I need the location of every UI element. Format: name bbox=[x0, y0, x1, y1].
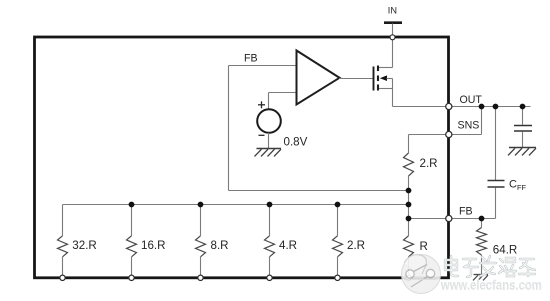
svg-text:16.R: 16.R bbox=[141, 239, 166, 252]
resistor 4.R bbox=[265, 205, 275, 278]
svg-text:OUT: OUT bbox=[460, 94, 483, 106]
svg-text:2.R: 2.R bbox=[420, 157, 438, 170]
junction dot OUT/SNS tie bbox=[479, 104, 485, 110]
ground under output capacitor bbox=[508, 148, 536, 156]
svg-text:SNS: SNS bbox=[458, 119, 480, 131]
resistor 64.R bbox=[477, 219, 487, 275]
label FB (op-amp input) bbox=[244, 53, 258, 65]
svg-text:4.R: 4.R bbox=[279, 239, 297, 252]
junction dot OUT/CFF bbox=[493, 104, 499, 110]
junction dot rail at 2.R bbox=[335, 202, 341, 208]
minus sign of V1 bbox=[259, 134, 265, 136]
resistor 2.R (internal upper divider) bbox=[404, 153, 414, 191]
label OUT bbox=[460, 94, 483, 106]
label 0.8V bbox=[284, 135, 308, 148]
label FB (pin) bbox=[459, 205, 473, 217]
wire FB external to CFF bbox=[449, 218, 496, 220]
terminal 8.R bottom bbox=[198, 275, 203, 280]
watermark www.elecfans.com bbox=[440, 277, 542, 292]
svg-text:IN: IN bbox=[388, 6, 397, 16]
terminal 4.R bottom bbox=[267, 275, 272, 280]
pin SNS bbox=[446, 131, 452, 137]
wire SNS to internal divider bbox=[409, 135, 450, 154]
label 32.R bbox=[72, 239, 97, 252]
wire drain vertical from top border node to MOSFET bbox=[377, 37, 393, 68]
voltage source V1 0.8V bbox=[257, 109, 281, 133]
svg-text:0.8V: 0.8V bbox=[284, 135, 308, 148]
resistor 2.R (ladder) bbox=[333, 205, 343, 278]
op-amp U1 bbox=[297, 51, 340, 105]
junction dot OUT/output cap bbox=[520, 104, 526, 110]
capacitor output bbox=[514, 107, 532, 148]
label 64.R bbox=[493, 244, 518, 257]
wire OUT external line bbox=[449, 106, 531, 108]
resistor 32.R bbox=[58, 205, 68, 278]
junction dot rail end bbox=[406, 202, 412, 208]
watermark logo circle bbox=[402, 255, 441, 294]
resistor 16.R bbox=[127, 205, 137, 278]
junction dot rail at 16.R bbox=[129, 202, 135, 208]
wire op-amp noninverting input to 0.8V source bbox=[269, 93, 297, 110]
ground under 64.R bbox=[473, 275, 488, 281]
junction dot rail at 4.R bbox=[267, 202, 273, 208]
IN terminal bar bbox=[384, 21, 402, 24]
ground under V1 bbox=[255, 149, 282, 157]
transistor Q1 (NMOS pass FET) bbox=[374, 66, 393, 107]
label 4.R bbox=[279, 239, 297, 252]
terminal 32.R bottom bbox=[60, 275, 65, 280]
junction dot FB/64.R bbox=[479, 216, 485, 222]
svg-text:FB: FB bbox=[244, 53, 258, 65]
label 16.R bbox=[141, 239, 166, 252]
resistor 8.R bbox=[196, 205, 206, 278]
label 8.R bbox=[211, 239, 229, 252]
pin OUT bbox=[446, 103, 452, 109]
IC boundary box bbox=[35, 37, 449, 278]
svg-text:2.R: 2.R bbox=[347, 239, 365, 252]
svg-text:8.R: 8.R bbox=[211, 239, 229, 252]
label 2.R (ladder) bbox=[347, 239, 365, 252]
terminal 2.R bottom bbox=[335, 275, 340, 280]
svg-text:64.R: 64.R bbox=[493, 244, 518, 257]
junction dot divider mid node bbox=[406, 188, 412, 194]
wire SNS tie to OUT bbox=[449, 107, 482, 135]
pin FB bbox=[446, 215, 452, 221]
wire V1 to ground bbox=[268, 133, 270, 149]
label SNS bbox=[458, 119, 480, 131]
junction dot FB node bbox=[406, 216, 412, 222]
wire internal FB column bbox=[408, 191, 410, 224]
svg-text:FB: FB bbox=[459, 205, 473, 217]
junction dot rail at 8.R bbox=[198, 202, 204, 208]
terminal 16.R bottom bbox=[129, 275, 134, 280]
node IN on top border bbox=[390, 35, 395, 40]
label CFF bbox=[509, 178, 526, 192]
wire FB pin to divider bbox=[409, 218, 450, 220]
capacitor CFF bbox=[488, 107, 505, 219]
resistor R bbox=[404, 223, 414, 278]
terminal R bottom bbox=[406, 275, 411, 280]
label 2.R (internal) bbox=[420, 157, 438, 170]
svg-text:R: R bbox=[420, 240, 428, 253]
plus sign of V1 bbox=[258, 101, 265, 108]
svg-text:32.R: 32.R bbox=[72, 239, 97, 252]
wire MOSFET source to OUT pin bbox=[393, 106, 450, 108]
wire op-amp output to MOSFET gate bbox=[339, 78, 374, 80]
wire ladder top rail bbox=[63, 204, 409, 206]
wire IN terminal to top border bbox=[392, 24, 394, 38]
label IN bbox=[388, 6, 397, 16]
watermark chinese characters bbox=[445, 256, 535, 277]
wire FB from op-amp inverting input bbox=[229, 66, 409, 191]
svg-text:www.elecfans.com: www.elecfans.com bbox=[441, 277, 543, 292]
label R bbox=[420, 240, 428, 253]
